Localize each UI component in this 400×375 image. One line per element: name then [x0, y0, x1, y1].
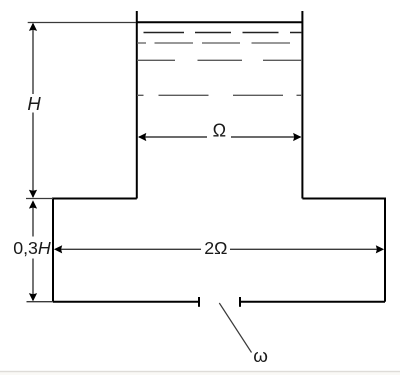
- middle extension line: [26, 198, 53, 200]
- svg-text:ω: ω: [253, 345, 268, 366]
- svg-text:0,3H: 0,3H: [13, 238, 51, 258]
- Omega dimension left arrowhead: [138, 133, 146, 141]
- 0,3H dimension top arrowhead: [29, 200, 37, 208]
- 2-Omega dimension line: [56, 248, 383, 250]
- liquid dash row 1: [144, 32, 303, 34]
- orifice right tick: [239, 297, 241, 307]
- bottom wall right segment: [240, 301, 385, 303]
- omega leader line: [219, 303, 251, 353]
- svg-text:Ω: Ω: [213, 121, 226, 141]
- svg-text:H: H: [27, 93, 41, 114]
- container outline: top tank left wall: [136, 11, 138, 199]
- H dimension line: [32, 24, 34, 197]
- bottom tank right wall: [384, 198, 386, 302]
- svg-text:2Ω: 2Ω: [204, 238, 227, 258]
- liquid dash row 2: [137, 42, 290, 44]
- liquid surface: [137, 21, 303, 23]
- Omega dimension right arrowhead: [293, 133, 301, 141]
- H dimension top arrowhead: [29, 23, 37, 31]
- H dimension bottom arrowhead: [29, 190, 37, 198]
- 0,3H dimension bottom arrowhead: [29, 293, 37, 301]
- container outline: top tank right wall: [301, 11, 303, 199]
- orifice left tick: [198, 297, 200, 307]
- footer strip: [0, 372, 400, 375]
- top extension line: [28, 22, 136, 24]
- Omega dimension line: [139, 136, 301, 138]
- bottom wall left segment: [53, 301, 199, 303]
- 0,3H dimension line: [32, 202, 34, 300]
- 2-Omega dimension left arrowhead: [54, 245, 62, 253]
- left shoulder: [53, 198, 137, 200]
- bottom extension line: [27, 301, 54, 303]
- liquid dash row 4: [137, 94, 302, 96]
- footer divider line: [0, 371, 400, 372]
- bottom tank left wall: [52, 198, 54, 302]
- 2-Omega dimension right arrowhead: [376, 245, 384, 253]
- right shoulder: [302, 198, 385, 200]
- liquid dash row 3: [137, 59, 302, 61]
